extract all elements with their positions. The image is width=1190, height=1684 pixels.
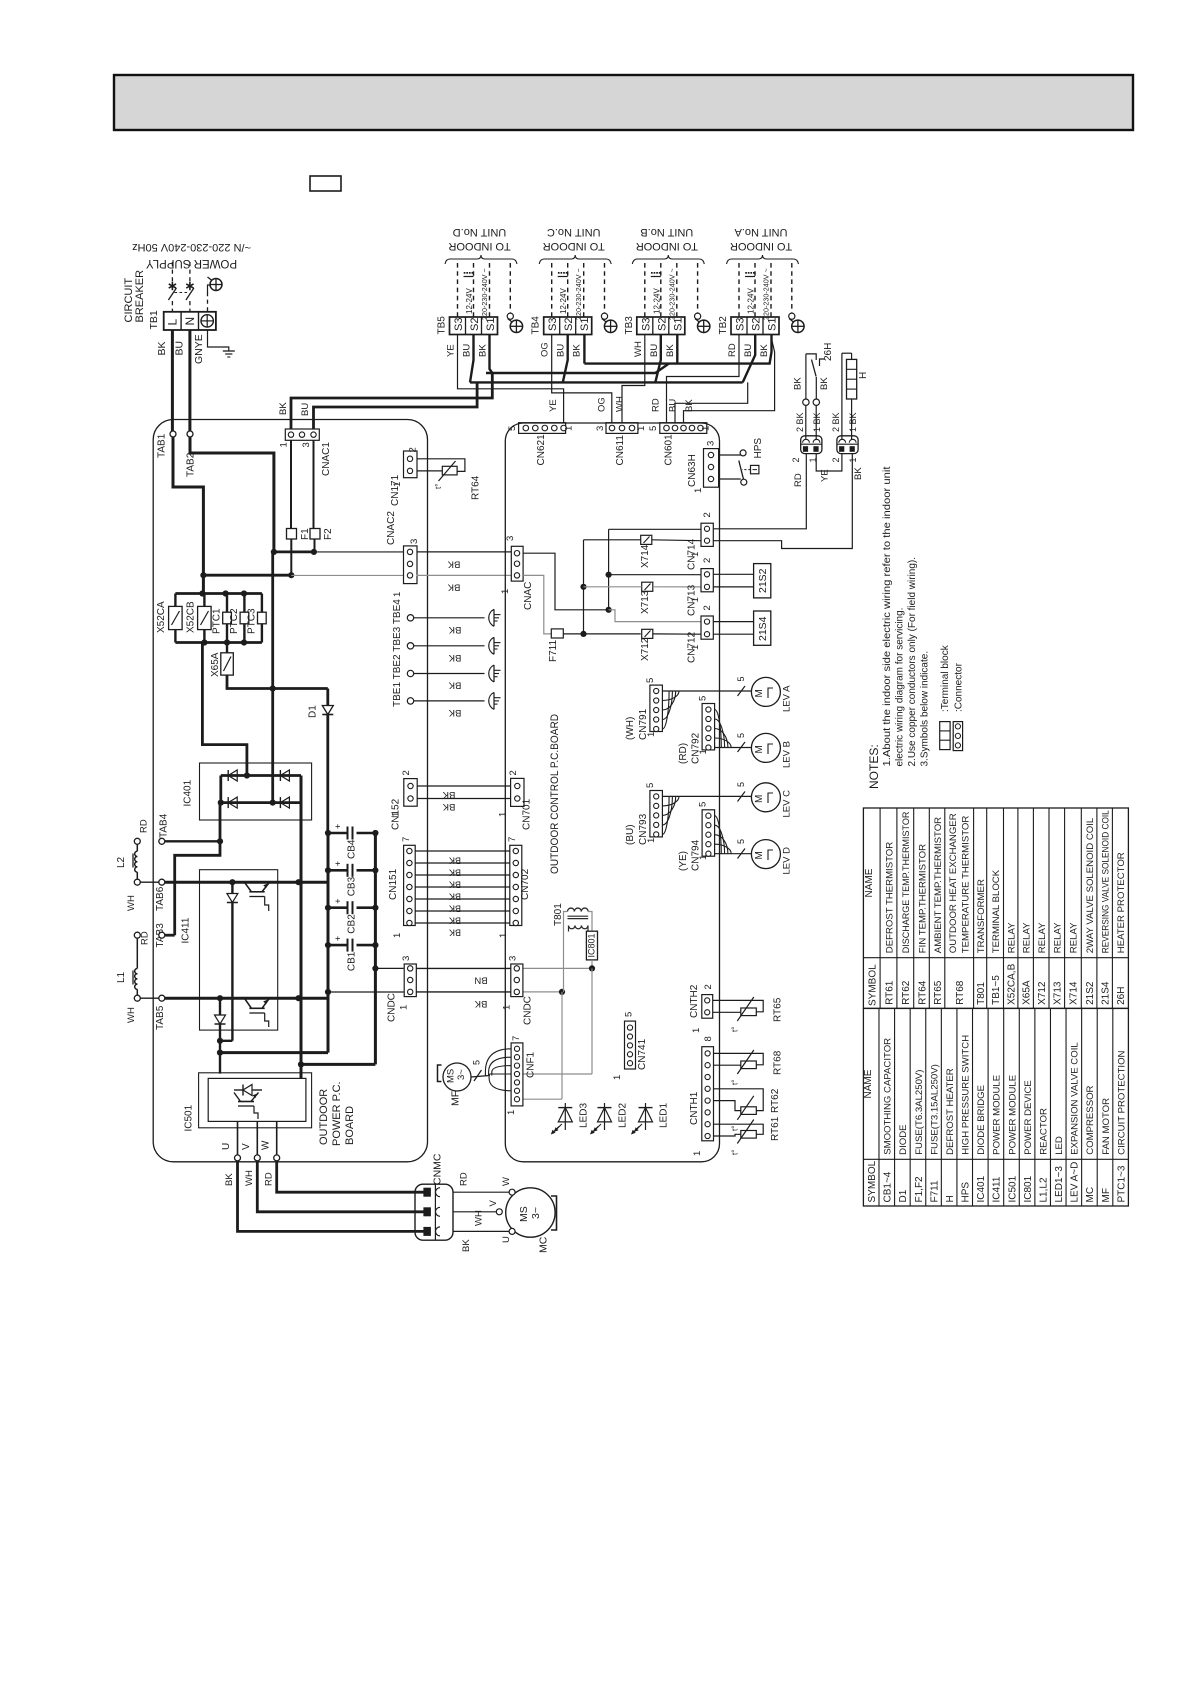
svg-text:BK: BK	[461, 1239, 472, 1252]
wire rail Y to CN712	[609, 610, 701, 622]
svg-text:F711: F711	[929, 1180, 940, 1202]
svg-text:X65A: X65A	[1021, 980, 1032, 1005]
svg-text:BK: BK	[448, 680, 461, 691]
svg-text:TB1~5: TB1~5	[991, 975, 1002, 1005]
expansion valve motor LEV A	[751, 677, 780, 706]
svg-text:X65A: X65A	[210, 652, 221, 677]
svg-text:BK: BK	[572, 344, 583, 357]
svg-text:REACTOR: REACTOR	[1038, 1108, 1049, 1155]
svg-text:PTC1~3: PTC1~3	[1116, 1165, 1127, 1202]
smoothing capacitor CB3	[328, 869, 348, 872]
svg-text:L2: L2	[116, 856, 127, 868]
svg-text:CNDC: CNDC	[523, 996, 534, 1025]
svg-text:NAME: NAME	[864, 868, 875, 897]
signal wire YE TB5-S3 to CN621	[458, 335, 564, 424]
svg-text:DEFROST THERMISTOR: DEFROST THERMISTOR	[884, 842, 895, 953]
bridge top rail	[221, 774, 301, 777]
BK bus staircase to S1 terminals	[490, 335, 493, 374]
svg-text:CN601: CN601	[664, 434, 675, 466]
node CNDC pin3 takeoff	[372, 965, 378, 971]
svg-text:RELAY: RELAY	[1069, 922, 1080, 953]
svg-text:OG: OG	[597, 397, 608, 412]
svg-text:S1: S1	[485, 318, 497, 331]
DC feed to fan connector CNF1	[591, 968, 593, 1074]
svg-text:LEV A: LEV A	[782, 685, 793, 712]
svg-text:7: 7	[401, 837, 412, 842]
label TO INDOOR UNIT No.C	[543, 226, 605, 252]
brace over terminal block TB3	[632, 255, 704, 264]
power module IC411 box	[200, 870, 278, 1030]
svg-text:1: 1	[506, 1110, 517, 1115]
svg-text:CN701: CN701	[522, 798, 533, 830]
bridge diode bottom-right	[280, 797, 289, 808]
svg-text:CN712: CN712	[687, 631, 698, 663]
svg-text:MS: MS	[518, 1206, 530, 1222]
svg-text:N: N	[183, 317, 197, 326]
svg-text:3: 3	[409, 539, 420, 544]
node fuse output N-line	[274, 551, 314, 554]
svg-text:M: M	[754, 795, 765, 803]
svg-text:2: 2	[831, 457, 841, 462]
svg-text:21S2: 21S2	[1085, 981, 1096, 1005]
svg-text:X712: X712	[640, 637, 651, 661]
svg-text:21S4: 21S4	[1100, 981, 1111, 1005]
dashed field wires to indoor unit (TB3)	[644, 263, 646, 317]
expansion valve motor LEV C	[751, 783, 780, 812]
svg-text:2WAY VALVE SOLENOID COIL: 2WAY VALVE SOLENOID COIL	[1085, 817, 1096, 953]
svg-text:DIODE: DIODE	[898, 1124, 909, 1154]
svg-text:t°: t°	[434, 484, 443, 489]
svg-text:BK: BK	[449, 856, 461, 866]
smoothing capacitor CB1	[328, 944, 348, 947]
svg-text:7: 7	[511, 1036, 522, 1041]
svg-text:RD: RD	[727, 343, 738, 357]
S2 rise TB2	[743, 335, 756, 383]
svg-text:X713: X713	[1053, 981, 1064, 1005]
svg-text:LED3: LED3	[578, 1103, 589, 1128]
svg-text:3.Symbols below indicate.: 3.Symbols below indicate.	[920, 651, 931, 767]
svg-text:S3: S3	[735, 318, 747, 331]
svg-text:F1,F2: F1,F2	[914, 1176, 925, 1203]
svg-text:TAB2: TAB2	[186, 452, 197, 477]
svg-text:BK: BK	[449, 868, 461, 878]
svg-text:IC411: IC411	[181, 917, 192, 943]
svg-text:T801: T801	[553, 903, 564, 926]
svg-text:RT65: RT65	[773, 997, 784, 1022]
svg-text:CB3: CB3	[347, 876, 358, 896]
svg-text:V: V	[488, 1200, 499, 1207]
svg-text:D1: D1	[898, 1189, 909, 1202]
diode D1	[326, 689, 329, 706]
wire CNAC pin1 via F711	[523, 575, 551, 634]
wire TAB1 to relay bus	[173, 437, 203, 594]
svg-text:CN151: CN151	[388, 868, 399, 900]
free-wheel diode upper in IC411	[231, 882, 233, 1041]
svg-text:RT62: RT62	[901, 980, 912, 1005]
svg-text:H: H	[945, 1195, 956, 1202]
svg-text:26H: 26H	[823, 343, 834, 361]
svg-text:TAB5: TAB5	[155, 1005, 166, 1030]
svg-text:X712: X712	[1037, 981, 1048, 1005]
IGBT symbol in IC501	[243, 1085, 252, 1096]
svg-text:IC401: IC401	[976, 1175, 987, 1202]
header title bar (redacted grey block)	[114, 75, 1133, 130]
wire CNAC2 pin3 feed (thin)	[314, 551, 404, 553]
node IGBT2 emitter junction	[220, 1040, 232, 1042]
svg-text:BK: BK	[449, 928, 461, 938]
relay contact X713	[642, 582, 653, 591]
chassis ground symbol	[223, 350, 235, 352]
svg-text:RELAY: RELAY	[1053, 922, 1064, 953]
svg-text:1: 1	[564, 426, 575, 431]
svg-text:1: 1	[698, 855, 709, 860]
svg-text:7: 7	[507, 837, 518, 842]
svg-text:X52CB: X52CB	[186, 601, 197, 633]
wire CNAC pin3 to relay rails	[523, 553, 609, 610]
earth symbol (TB3)	[698, 320, 710, 332]
svg-text:S3: S3	[453, 318, 465, 331]
svg-text:1: 1	[698, 749, 709, 754]
svg-text:5: 5	[698, 802, 709, 807]
S2 drop TB4	[563, 335, 568, 383]
svg-text:IC801: IC801	[587, 933, 597, 957]
wire W to CNMC (RD)	[277, 1161, 424, 1192]
svg-text:1: 1	[498, 812, 509, 817]
svg-text:YE: YE	[820, 469, 831, 482]
svg-text:1: 1	[636, 426, 647, 431]
rail Y (neutral)	[608, 529, 610, 610]
svg-text:3~: 3~	[530, 1207, 542, 1219]
bridge bottom rail	[221, 801, 301, 804]
svg-text:~/N 220-230-240V 50Hz: ~/N 220-230-240V 50Hz	[132, 241, 251, 253]
svg-text:BK: BK	[448, 707, 461, 718]
svg-text:YE: YE	[548, 399, 559, 412]
fan motor bundle to CNF1	[471, 1076, 490, 1078]
IC501 output U	[237, 1121, 239, 1155]
svg-text:UNIT No.B: UNIT No.B	[640, 226, 693, 238]
svg-text:REVERSING VALVE SOLENOID COIL: REVERSING VALVE SOLENOID COIL	[1100, 810, 1110, 953]
svg-text:5: 5	[736, 676, 746, 681]
svg-text:WH: WH	[474, 1210, 485, 1226]
connector legend symbol	[953, 722, 962, 751]
svg-text:2.Use copper conductors only (: 2.Use copper conductors only (For field …	[907, 557, 918, 767]
svg-text:CNAC2: CNAC2	[386, 511, 397, 545]
svg-text:UNIT No.D: UNIT No.D	[453, 226, 507, 238]
bridge right leg to DC rail	[300, 776, 303, 803]
brace over terminal block TB2	[727, 255, 799, 264]
svg-text:WH: WH	[633, 341, 644, 357]
svg-text:T801: T801	[976, 982, 987, 1005]
dashed field wires to indoor unit (TB4)	[551, 263, 553, 317]
svg-text:IC401: IC401	[183, 779, 194, 806]
svg-text:M: M	[754, 745, 765, 753]
svg-text:LED1~3: LED1~3	[1054, 1166, 1065, 1203]
IC501 output W	[276, 1121, 278, 1155]
svg-text:CB2: CB2	[347, 914, 358, 934]
svg-text:W: W	[261, 1140, 272, 1150]
svg-text:POWER DEVICE: POWER DEVICE	[1023, 1080, 1034, 1155]
T801 secondary stubs	[568, 926, 570, 932]
svg-text:MC: MC	[538, 1236, 550, 1253]
svg-text:RELAY: RELAY	[1021, 922, 1032, 953]
svg-text:BK: BK	[447, 582, 460, 593]
svg-text:5: 5	[645, 678, 656, 683]
svg-text:IC411: IC411	[992, 1176, 1003, 1202]
fan motor MF	[443, 1063, 471, 1091]
svg-text:1: 1	[693, 488, 704, 493]
svg-text:2 BK: 2 BK	[795, 412, 805, 432]
svg-text:5: 5	[507, 426, 518, 431]
connector CN701	[511, 778, 524, 806]
label TO INDOOR UNIT No.B	[636, 226, 698, 252]
svg-text:LEV A~D: LEV A~D	[1070, 1162, 1081, 1203]
svg-text:CNF1: CNF1	[526, 1051, 537, 1078]
wires CN151 to CN702	[415, 850, 510, 852]
indicator LED3	[564, 1103, 566, 1130]
BU bus staircase to S2 terminals	[470, 381, 743, 383]
svg-text:TBE1 TBE2 TBE3 TBE4: TBE1 TBE2 TBE3 TBE4	[392, 599, 403, 707]
svg-text:t°: t°	[731, 1027, 740, 1032]
svg-text:t°: t°	[731, 1080, 740, 1085]
svg-text:IC501: IC501	[1007, 1175, 1018, 1202]
svg-text:TRANSFORMER: TRANSFORMER	[976, 879, 987, 953]
svg-text:(WH): (WH)	[625, 717, 636, 740]
IGBT transistor upper in IC411	[249, 891, 264, 893]
PTC1 circuit protection	[226, 594, 228, 613]
LEV C drive wires	[662, 795, 751, 797]
svg-text:BREAKER: BREAKER	[134, 270, 146, 323]
svg-text:RD: RD	[140, 931, 151, 945]
label 12-24V (TB4)	[558, 272, 560, 274]
svg-text:U: U	[501, 1236, 512, 1243]
svg-text:(BU): (BU)	[625, 824, 636, 845]
svg-text:F711: F711	[548, 640, 559, 662]
svg-text:COMPRESSOR: COMPRESSOR	[1085, 1085, 1096, 1154]
svg-text:CN792: CN792	[691, 732, 702, 764]
svg-text:electric wiring diagram for se: electric wiring diagram for servicing.	[895, 608, 906, 767]
relay contact X712	[642, 629, 653, 638]
svg-text:BK: BK	[449, 880, 461, 890]
symbol table lower (CB1~4..PTC1~3)	[863, 1008, 1128, 1206]
svg-text:2: 2	[401, 770, 412, 775]
svg-text:S1: S1	[672, 318, 684, 331]
svg-text:5: 5	[624, 1012, 635, 1017]
svg-text:POWER SUPPLY: POWER SUPPLY	[146, 257, 237, 269]
svg-text:8: 8	[703, 1036, 714, 1041]
svg-text:RT64: RT64	[917, 980, 928, 1005]
symbol table upper (RT61..26H)	[863, 808, 1128, 1008]
svg-text:SYMBOL: SYMBOL	[868, 964, 879, 1006]
svg-text:SMOOTHING CAPACITOR: SMOOTHING CAPACITOR	[883, 1038, 894, 1155]
wire BN inside control board	[523, 967, 592, 969]
svg-text:PTC2: PTC2	[229, 608, 240, 634]
svg-text:2: 2	[791, 457, 801, 462]
svg-text:TB2: TB2	[718, 316, 729, 335]
svg-text:(RD): (RD)	[678, 743, 689, 764]
terminal TAB4 and wire	[162, 840, 220, 842]
svg-text:S2: S2	[751, 318, 763, 331]
svg-text:PTC1: PTC1	[212, 608, 223, 634]
svg-text:CIRCUIT PROTECTION: CIRCUIT PROTECTION	[1116, 1050, 1127, 1154]
svg-text:M: M	[754, 851, 765, 859]
thermistor RT68	[714, 1053, 764, 1064]
svg-text:TAB1: TAB1	[157, 433, 168, 458]
signal wire RD TB2-S3 to CN601	[667, 335, 740, 424]
svg-text:BU: BU	[743, 344, 754, 357]
svg-text:OG: OG	[540, 342, 551, 357]
svg-text:YE: YE	[446, 344, 457, 357]
relay X65A	[226, 643, 228, 653]
wire V to CNMC (WH)	[257, 1161, 424, 1212]
svg-text:F2: F2	[323, 528, 334, 540]
svg-text:X713: X713	[640, 590, 651, 614]
svg-text:+: +	[333, 936, 343, 941]
svg-text:LEV D: LEV D	[782, 847, 793, 875]
supply earth symbol	[210, 279, 222, 291]
svg-text:BU: BU	[462, 344, 473, 357]
label 12-24V (TB3)	[651, 272, 653, 274]
svg-text:BK: BK	[449, 916, 461, 926]
svg-text:BK: BK	[448, 652, 461, 663]
svg-text:BK: BK	[684, 399, 695, 412]
bus BU from CNAC1 pin3	[314, 382, 478, 429]
svg-text:TO INDOOR: TO INDOOR	[636, 240, 698, 252]
svg-text:t°: t°	[731, 1126, 740, 1131]
S1 drop TB3	[676, 335, 678, 364]
fuse F711	[551, 629, 563, 638]
LEV A drive wires	[662, 690, 751, 692]
svg-text:WH: WH	[615, 396, 626, 412]
svg-text:CN611: CN611	[615, 435, 626, 466]
wires CNAC2 to CNAC	[417, 551, 512, 553]
svg-text:M: M	[754, 689, 765, 697]
power device IC501 inner box	[208, 1078, 306, 1121]
relay X52CA	[174, 594, 176, 607]
svg-text:1.About the indoor side electr: 1.About the indoor side electric wiring …	[882, 466, 893, 766]
terminal TAB2	[187, 431, 193, 437]
svg-text:L1: L1	[116, 971, 127, 983]
svg-text:CN621: CN621	[536, 434, 547, 466]
wire plug1 to plug2 (YE)	[816, 454, 842, 471]
svg-text:+: +	[333, 824, 343, 829]
svg-text:SYMBOL: SYMBOL	[867, 1160, 878, 1202]
svg-text:HPS: HPS	[961, 1182, 972, 1203]
PTC3	[261, 594, 263, 613]
svg-text:FUSE(T3.15AL250V): FUSE(T3.15AL250V)	[929, 1064, 940, 1155]
label TO INDOOR UNIT No.A	[730, 226, 792, 252]
signal wire BU CN601 to TB2-S2	[675, 382, 748, 423]
svg-text:S2: S2	[469, 318, 481, 331]
connector CN171	[404, 451, 418, 478]
svg-text:BK: BK	[449, 904, 461, 914]
svg-text:12-24V: 12-24V	[559, 288, 568, 314]
svg-text:S1: S1	[767, 318, 779, 331]
smoothing capacitor CB2	[328, 906, 348, 909]
signal wire OG TB4-S3 to CN611	[552, 335, 612, 424]
svg-text:AMBIENT TEMP.THERMISTOR: AMBIENT TEMP.THERMISTOR	[933, 817, 944, 953]
free-wheel diode lower in IC411	[219, 998, 221, 1073]
svg-text:CNDC: CNDC	[387, 993, 398, 1022]
svg-text:NAME: NAME	[863, 1069, 874, 1098]
svg-text:RD: RD	[651, 398, 662, 412]
svg-text:MF: MF	[1101, 1188, 1112, 1202]
svg-text:2: 2	[702, 558, 713, 563]
svg-text:CB1: CB1	[347, 951, 358, 971]
svg-text:BK: BK	[224, 1173, 235, 1186]
svg-text:UNIT No.C: UNIT No.C	[547, 226, 601, 238]
power device IC501 outer box	[199, 1073, 312, 1128]
reactor L1	[134, 932, 140, 938]
svg-text:TO INDOOR: TO INDOOR	[543, 240, 605, 252]
label 12-24V (TB5)	[464, 272, 466, 274]
svg-text:BK: BK	[478, 344, 489, 357]
svg-text:RD: RD	[139, 819, 150, 833]
terminal block legend symbol	[940, 722, 950, 750]
svg-text:X714: X714	[1069, 981, 1080, 1005]
svg-text:CN702: CN702	[520, 868, 531, 900]
svg-text:26H: 26H	[1116, 987, 1127, 1005]
reactor L2	[134, 838, 140, 844]
svg-text:CB1~4: CB1~4	[883, 1171, 894, 1202]
svg-text:+: +	[333, 861, 343, 866]
svg-text:BN: BN	[474, 975, 487, 986]
signal wire WH TB3-S3 to CN611	[622, 335, 645, 424]
svg-text:TAB6: TAB6	[155, 886, 166, 911]
svg-text:CNMC: CNMC	[432, 1153, 444, 1185]
brace over terminal block TB4	[539, 255, 611, 264]
power module IC401 box	[200, 763, 312, 820]
svg-text:BU: BU	[649, 344, 660, 357]
svg-text:1: 1	[392, 933, 403, 938]
svg-text:2: 2	[703, 984, 714, 989]
svg-text:BU: BU	[668, 399, 679, 412]
earth symbol (TB4)	[604, 320, 616, 332]
fuse F2	[313, 440, 315, 529]
svg-text:RT61: RT61	[770, 1116, 781, 1141]
earth dashed wire (TB4)	[604, 263, 606, 313]
svg-text:2: 2	[508, 770, 519, 775]
svg-text:1 BK: 1 BK	[848, 412, 858, 432]
svg-text:2 BK: 2 BK	[831, 412, 841, 432]
wire BK DC- to control board	[416, 991, 511, 993]
high pressure switch HPS	[719, 454, 741, 456]
svg-text:V: V	[241, 1143, 252, 1150]
S2 drop TB3	[655, 335, 661, 383]
svg-text:EXPANSION VALVE COIL: EXPANSION VALVE COIL	[1070, 1042, 1081, 1155]
svg-text:TB4: TB4	[531, 316, 542, 335]
compressor shield bracket	[551, 1196, 557, 1230]
svg-text:FAN MOTOR: FAN MOTOR	[1101, 1098, 1112, 1155]
terminal TAB1	[170, 431, 176, 437]
svg-text:BK: BK	[819, 377, 830, 390]
earth symbol (TB5)	[510, 320, 522, 332]
wire X65A output to D1	[227, 675, 328, 688]
bridge diode top-left	[228, 770, 237, 781]
svg-text:GNYE: GNYE	[193, 334, 205, 364]
svg-text:HPS: HPS	[753, 438, 764, 459]
DC rail left (negative)	[327, 833, 330, 1053]
svg-text:OUTDOOR: OUTDOOR	[318, 1089, 330, 1145]
svg-text:2: 2	[408, 447, 419, 452]
svg-text:CB4: CB4	[347, 839, 358, 859]
wires CNMC to compressor motor	[453, 1191, 509, 1193]
svg-text:CN714: CN714	[687, 538, 698, 570]
svg-text:S2: S2	[656, 318, 668, 331]
svg-text:S1: S1	[579, 318, 591, 331]
connector CN702	[510, 845, 522, 925]
svg-text:3: 3	[301, 442, 312, 447]
svg-text:220-230-240V ~: 220-230-240V ~	[667, 268, 676, 320]
